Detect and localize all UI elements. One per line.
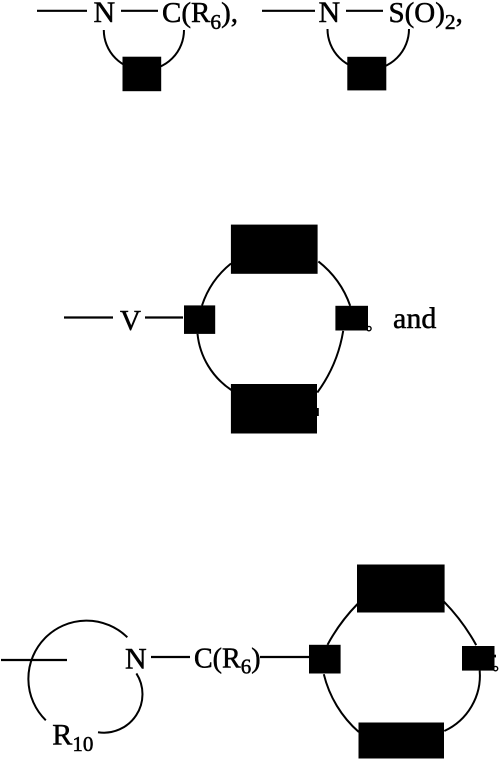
svg-text:N: N [125, 643, 147, 676]
svg-text:N: N [319, 0, 341, 29]
svg-text:C(R6): C(R6) [194, 644, 261, 679]
svg-text:V: V [120, 305, 141, 337]
svg-text:R10: R10 [52, 718, 93, 756]
svg-text:N: N [94, 0, 116, 29]
svg-text:S(O)2,: S(O)2, [389, 0, 463, 34]
svg-text:and: and [393, 302, 436, 335]
svg-text:C(R6),: C(R6), [162, 0, 238, 34]
